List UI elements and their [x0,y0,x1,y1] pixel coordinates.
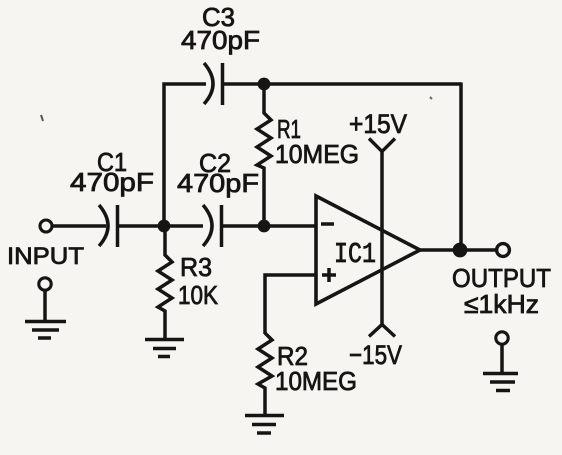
label OUTPUT [452,263,551,293]
op-amp inverting pin minus sign [321,222,334,226]
junction node dot (C2/R1 inverting input) [258,220,271,233]
wire op-amp power vertical (+15V to -15V) [380,152,384,324]
svg-text:470pF: 470pF [177,168,259,198]
wire top (left branch corner, through C3 to feedback corner) [164,84,461,226]
svg-text:470pF: 470pF [181,25,260,55]
stray pen speck near left branch [41,115,43,121]
label INPUT [7,243,84,270]
ground (under R2) [245,416,284,434]
label C2 [199,148,231,178]
label R1 [277,114,301,144]
svg-text:IC1: IC1 [334,238,376,271]
op-amp U1 IC1 triangle [316,196,420,304]
op-amp non-inverting pin plus sign [322,268,336,282]
ground (input side) [25,322,66,339]
stray speck above +15V wire corner [430,97,432,99]
capacitor C3 470pF [204,63,223,105]
-15V supply fork symbol [369,325,395,337]
value label 10MEG (R1) [275,139,359,169]
svg-text:10K: 10K [178,280,219,310]
junction node dot (C1/C2/R3) [158,220,171,233]
value label 470pF (C1) [70,167,154,197]
label +15V [349,109,407,139]
output ground terminal circle and stem [496,332,508,374]
wire op-amp output [419,248,497,252]
resistor R3 10K [158,226,172,339]
output terminal circle [497,244,510,257]
value label 10MEG (R2) [275,366,357,396]
svg-text:≤1kHz: ≤1kHz [464,289,539,319]
svg-text:10MEG: 10MEG [275,366,357,396]
svg-text:INPUT: INPUT [7,243,84,270]
ground (output side) [483,374,518,391]
capacitor C1 470pF [99,205,118,247]
label C1 [97,147,127,177]
ground (under R3) [145,340,184,357]
resistor R1 10MEG [257,84,271,226]
value label 470pF (C2) [177,168,259,198]
junction node dot (output) [453,243,468,258]
label R3 [180,252,212,282]
svg-text:470pF: 470pF [70,167,154,197]
svg-text:R3: R3 [180,252,212,282]
label <=1kHz [464,289,539,319]
+15V supply fork symbol [369,139,395,152]
resistor R2 10MEG [258,333,272,415]
label R2 [277,341,308,371]
value label 470pF (C3) [181,25,260,55]
wire feedback vertical (top corner down to output node) [459,82,463,250]
wire non-inverting input to R2 [265,275,316,334]
svg-text:+15V: +15V [349,109,407,139]
junction node dot (C3/R1 top) [258,78,271,91]
svg-text:10MEG: 10MEG [275,139,359,169]
value label 10K (R3) [178,280,219,310]
label -15V [349,340,402,370]
input ground terminal circle and stem [39,278,51,322]
capacitor C2 470pF [203,205,222,247]
svg-text:−15V: −15V [349,340,402,370]
input terminal circle [40,220,52,232]
wire input line (input jack through C1, node A, C2 to op-amp inverting input) [52,224,316,228]
label IC1 (op-amp designator) [334,238,376,271]
label C3 [202,2,235,32]
